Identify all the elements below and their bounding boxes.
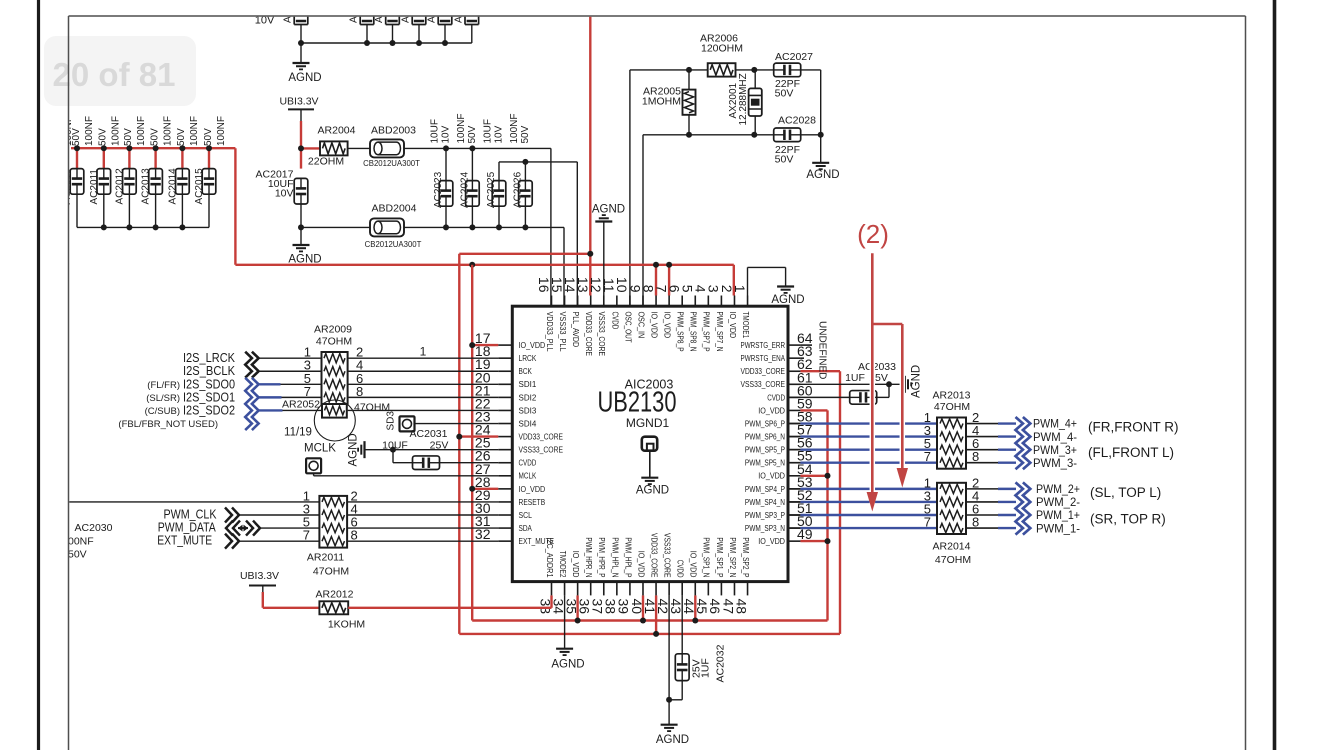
svg-text:AC2026: AC2026 <box>512 171 523 208</box>
wires blue IC to AR2014 <box>788 489 937 528</box>
wire pin42 VSS33 down <box>668 595 670 699</box>
svg-text:PWM_SP2_P: PWM_SP2_P <box>741 537 750 577</box>
svg-text:SCL: SCL <box>519 511 533 520</box>
svg-text:CVDD: CVDD <box>610 312 619 330</box>
resistor network AR2014 47OHM <box>924 475 979 566</box>
svg-text:UBI3.3V: UBI3.3V <box>240 570 279 582</box>
svg-text:TMODE2: TMODE2 <box>558 551 567 578</box>
svg-text:8: 8 <box>351 528 358 543</box>
svg-text:50V: 50V <box>123 128 134 146</box>
wire red IO_VDD left vertical <box>469 265 498 621</box>
IC right pins 49-64 <box>741 330 813 546</box>
capacitor AC2033 1UF 25V <box>788 361 896 404</box>
ferrite bead ABD2004 <box>301 203 422 250</box>
capacitor AC2023 10UF 10V <box>430 119 453 230</box>
svg-text:11/19: 11/19 <box>284 427 312 439</box>
svg-text:PWM_SP4_P: PWM_SP4_P <box>745 485 785 494</box>
capacitor AC2026 100NF 50V <box>509 113 532 230</box>
svg-text:VDD33_CORE: VDD33_CORE <box>519 432 564 441</box>
svg-text:1: 1 <box>420 344 427 358</box>
svg-text:VDD33_CORE: VDD33_CORE <box>584 312 593 357</box>
svg-text:PWM_SP7_N: PWM_SP7_N <box>715 312 724 352</box>
svg-text:PWM_HPR_P: PWM_HPR_P <box>597 537 606 577</box>
power symbol UBI3.3V <box>279 96 318 122</box>
svg-text:1UF: 1UF <box>700 658 712 678</box>
wire VSS33_PLL ground bus <box>404 227 564 306</box>
svg-text:PWRSTG_ERR: PWRSTG_ERR <box>741 341 786 350</box>
svg-text:IO_VDD: IO_VDD <box>519 341 546 350</box>
resistor network AR2009 47OHM <box>304 324 363 405</box>
svg-text:IO_VDD: IO_VDD <box>758 472 785 481</box>
wires AR2013 to connectors <box>966 424 1016 463</box>
labels PWM nets group2 <box>1036 482 1166 535</box>
wire red VDD33_CORE right vertical <box>800 371 840 634</box>
capacitor AC2027 22PF 50V <box>774 51 813 100</box>
svg-text:10V: 10V <box>441 125 452 143</box>
wire AR2004 to ABD2003 <box>348 147 370 149</box>
svg-text:100NF: 100NF <box>136 116 147 146</box>
capacitor top-row C1 (cropped) <box>349 0 374 43</box>
junction dots top bus <box>298 40 448 46</box>
right thick border bar <box>1273 0 1277 750</box>
svg-text:I2S_SDO1: I2S_SDO1 <box>183 390 235 404</box>
svg-text:PWM_2+: PWM_2+ <box>1036 482 1080 496</box>
svg-text:PWM_3+: PWM_3+ <box>1033 443 1077 457</box>
connector chevron EXT_MUTE <box>225 534 319 549</box>
svg-text:50V: 50V <box>775 154 794 166</box>
svg-text:120OHM: 120OHM <box>701 43 743 55</box>
resistor network AR2013 47OHM <box>924 389 979 468</box>
revision circle mark <box>314 400 355 441</box>
svg-text:PWRSTG_ENA: PWRSTG_ENA <box>741 354 786 363</box>
svg-text:EXT_MUTE: EXT_MUTE <box>157 533 212 547</box>
capacitor AC2025 10UF 10V <box>483 119 506 230</box>
wire OSC_IN net <box>643 135 774 306</box>
ground AGND pin34 <box>551 649 584 671</box>
svg-text:AC2027: AC2027 <box>775 51 813 63</box>
svg-text:I2C_ADDR1: I2C_ADDR1 <box>545 537 554 578</box>
ground AGND pin12 top <box>592 204 625 296</box>
svg-text:PWM_SP6_N: PWM_SP6_N <box>745 432 785 441</box>
svg-text:AGND: AGND <box>636 485 669 497</box>
svg-text:AGND: AGND <box>911 365 923 398</box>
connector chevron PWM_CLK <box>225 508 319 523</box>
svg-text:AGND: AGND <box>348 433 360 466</box>
svg-text:AC2014: AC2014 <box>167 168 178 205</box>
svg-text:PWM_SP6_P: PWM_SP6_P <box>745 419 785 428</box>
svg-text:I2S_BCLK: I2S_BCLK <box>183 364 236 378</box>
svg-text:MCLK: MCLK <box>304 443 336 455</box>
svg-text:PWM_SP5_P: PWM_SP5_P <box>745 446 785 455</box>
resistor AR2012 1KOHM <box>316 589 366 631</box>
capacitor AC2011 <box>89 116 122 227</box>
IC bottom pins 33-48 <box>537 533 750 614</box>
svg-text:PWM_4-: PWM_4- <box>1033 430 1077 444</box>
svg-text:AGND: AGND <box>656 734 689 746</box>
svg-text:AC2024: AC2024 <box>459 171 470 208</box>
svg-text:100NF: 100NF <box>189 116 200 146</box>
svg-text:AC2032: AC2032 <box>715 644 727 682</box>
svg-text:47OHM: 47OHM <box>934 401 970 413</box>
wire I2S_SDO2 <box>259 409 322 411</box>
svg-text:7: 7 <box>924 449 931 464</box>
svg-text:AC2028: AC2028 <box>778 115 816 127</box>
svg-text:47OHM: 47OHM <box>935 554 971 566</box>
svg-text:7: 7 <box>924 515 931 530</box>
svg-text:100NF: 100NF <box>162 116 173 146</box>
svg-text:AR2052: AR2052 <box>282 399 320 411</box>
svg-text:CVDD: CVDD <box>767 393 785 402</box>
pin 64 stub extension + UNDEFINED <box>800 321 827 379</box>
svg-text:AGND: AGND <box>551 659 584 671</box>
connector chevrons PWM group1 <box>1016 417 1023 469</box>
svg-text:1MOHM: 1MOHM <box>642 96 681 108</box>
svg-text:ABD2003: ABD2003 <box>371 125 416 137</box>
wire AC2030 row (pin29) <box>69 501 320 503</box>
svg-text:SDI3: SDI3 <box>519 406 537 415</box>
svg-text:IO_VDD: IO_VDD <box>519 485 546 494</box>
testpoint SD3 <box>386 411 499 432</box>
svg-text:PWM_1-: PWM_1- <box>1036 521 1080 535</box>
ground AGND crystal <box>806 163 839 181</box>
svg-text:UNDEFINED: UNDEFINED <box>817 321 828 379</box>
svg-text:50V: 50V <box>203 128 214 146</box>
wire I2S_SDO0 <box>259 383 322 385</box>
svg-text:7: 7 <box>304 384 311 399</box>
ground AGND rotated by AC2031 <box>348 433 394 466</box>
svg-text:1: 1 <box>732 285 748 293</box>
svg-text:I2S_SDO2: I2S_SDO2 <box>183 403 235 417</box>
labels AC2030 <box>68 522 113 561</box>
svg-text:(FBL/FBR_NOT USED): (FBL/FBR_NOT USED) <box>118 419 218 430</box>
svg-text:1KOHM: 1KOHM <box>328 619 365 631</box>
svg-text:VSS33_CORE: VSS33_CORE <box>741 380 786 389</box>
svg-text:PWM_DATA: PWM_DATA <box>158 520 217 534</box>
svg-text:OSC_IN: OSC_IN <box>636 312 645 339</box>
svg-text:AGND: AGND <box>592 204 625 216</box>
labels PWM_CLK PWM_DATA EXT_MUTE <box>157 507 217 547</box>
svg-text:PWM_4+: PWM_4+ <box>1033 417 1077 431</box>
connector chevrons PWM group2 <box>1016 482 1023 534</box>
svg-text:00NF: 00NF <box>68 536 94 548</box>
svg-text:AR2013: AR2013 <box>933 389 971 401</box>
svg-text:PWM_SP3_P: PWM_SP3_P <box>745 511 785 520</box>
svg-text:IO_VDD: IO_VDD <box>636 551 645 578</box>
annotation (2) with arrows <box>857 219 908 512</box>
labels PWM nets group1 <box>1033 417 1179 470</box>
capacitor AC2014 <box>167 116 200 227</box>
svg-text:SDA: SDA <box>519 524 533 533</box>
wire red IO_VDD bottom bus <box>472 595 827 623</box>
wire I2S_BCLK <box>259 370 322 372</box>
svg-text:CB2012UA300T: CB2012UA300T <box>363 159 420 168</box>
wire crystal right branch <box>801 70 821 163</box>
capacitor top-row C2 (cropped) <box>374 0 399 43</box>
wire VSS33_CORE right to ground <box>788 381 903 397</box>
wires AR2009 outputs to IC <box>348 358 499 410</box>
svg-text:AC2023: AC2023 <box>433 171 444 208</box>
resistor network AR2011 47OHM <box>303 488 358 577</box>
MGND1 pad symbol and ground <box>636 437 669 497</box>
capacitor AC2028 22PF 50V <box>774 115 816 166</box>
svg-text:PWM_SP2_N: PWM_SP2_N <box>728 537 737 577</box>
labels I2S signals <box>118 351 235 430</box>
svg-text:CVDD: CVDD <box>676 560 685 578</box>
svg-text:I2S_LRCK: I2S_LRCK <box>183 351 236 365</box>
svg-text:IO_VDD: IO_VDD <box>663 312 672 339</box>
wire red VDD33_CORE bottom bus <box>459 595 840 637</box>
svg-text:AC2011: AC2011 <box>89 169 100 205</box>
svg-text:AR2009: AR2009 <box>314 324 352 336</box>
svg-text:CVDD: CVDD <box>519 459 537 468</box>
svg-text:(FR,FRONT R): (FR,FRONT R) <box>1088 419 1179 434</box>
svg-text:10UF: 10UF <box>430 119 441 143</box>
svg-text:(SL, TOP L): (SL, TOP L) <box>1090 485 1161 500</box>
svg-text:PWM_SP1_P: PWM_SP1_P <box>715 537 724 577</box>
wire red vertical to IO_VDD bus <box>234 148 236 265</box>
svg-text:7: 7 <box>303 528 310 543</box>
svg-text:AC2025: AC2025 <box>486 171 497 208</box>
svg-text:8: 8 <box>356 384 363 399</box>
ground AGND rotated right <box>905 365 923 398</box>
svg-text:AGND: AGND <box>771 294 804 306</box>
capacitor AC2032 1UF 25V <box>666 595 726 702</box>
svg-text:PWM_1+: PWM_1+ <box>1036 508 1080 522</box>
IC top pins 1-16 <box>536 277 750 356</box>
svg-text:IO_VDD: IO_VDD <box>758 406 785 415</box>
svg-text:48: 48 <box>733 599 749 615</box>
svg-text:50V: 50V <box>68 549 87 561</box>
svg-text:PWM_HPL_P: PWM_HPL_P <box>623 537 632 577</box>
wire red IO_VDD top bus <box>235 262 733 296</box>
wire AR2006 to AC2027 <box>736 69 775 71</box>
svg-text:AGND: AGND <box>806 169 839 181</box>
capacitor AC2013 <box>141 116 174 227</box>
svg-text:VDD33_CORE: VDD33_CORE <box>741 367 786 376</box>
wire red IO_VDD right vertical <box>800 410 830 620</box>
junction dots cap bank <box>74 145 212 230</box>
svg-text:100NF: 100NF <box>216 116 227 146</box>
svg-text:IO_VDD: IO_VDD <box>728 312 737 339</box>
svg-text:IO_VDD: IO_VDD <box>689 551 698 578</box>
wire red UBI3.3V to AR2012 <box>263 592 320 608</box>
wire red UBI3.3V bus over cap bank <box>71 147 235 149</box>
wire I2S_LRCK <box>259 357 322 359</box>
capacitor AC2010 <box>62 116 95 227</box>
svg-text:CB2012UA300T: CB2012UA300T <box>365 240 422 249</box>
svg-text:PWM_HPL_N: PWM_HPL_N <box>610 537 619 577</box>
capacitor top-row C5 (cropped) <box>453 0 478 43</box>
capacitor top-row C4 (cropped) <box>427 0 452 43</box>
svg-text:50V: 50V <box>775 88 794 100</box>
wire red AR2012 to pin33 <box>348 595 551 607</box>
resistor AR2005 1MOHM <box>642 70 696 135</box>
svg-text:(SL/SR): (SL/SR) <box>146 393 180 404</box>
power symbol UBI3.3V lower <box>240 570 279 592</box>
svg-text:VDD33_CORE: VDD33_CORE <box>649 533 658 578</box>
svg-text:SDI2: SDI2 <box>519 393 537 402</box>
svg-text:PLL_AVDD: PLL_AVDD <box>571 312 580 348</box>
svg-text:PWM_SP7_P: PWM_SP7_P <box>702 312 711 352</box>
svg-text:50V: 50V <box>98 128 109 146</box>
ferrite bead ABD2003 <box>363 125 420 169</box>
svg-text:SD3: SD3 <box>386 411 397 431</box>
wire OSC_OUT net <box>630 70 708 306</box>
capacitor top-row C0 (cropped) <box>283 0 308 43</box>
ground AGND below AC2017 <box>288 224 321 265</box>
connector chevrons I2S blue <box>245 378 252 430</box>
svg-text:VSS33_CORE: VSS33_CORE <box>519 446 564 455</box>
svg-text:LRCK: LRCK <box>519 354 537 363</box>
svg-text:50V: 50V <box>176 128 187 146</box>
svg-text:10UF: 10UF <box>483 119 494 143</box>
svg-text:IO_VDD: IO_VDD <box>571 551 580 578</box>
svg-text:100NF: 100NF <box>84 116 95 146</box>
connector bidir PWM_DATA <box>226 521 319 536</box>
svg-text:UBI3.3V: UBI3.3V <box>279 96 318 108</box>
svg-text:12.288MHZ: 12.288MHZ <box>738 73 749 125</box>
svg-text:PWM_SP8_P: PWM_SP8_P <box>676 312 685 352</box>
wire pin34 TMODE2 to ground <box>564 595 566 648</box>
svg-text:100NF: 100NF <box>456 113 467 143</box>
left thick border bar <box>37 0 40 750</box>
resistor AR2052 47OHM <box>282 399 390 418</box>
svg-text:10V: 10V <box>494 125 505 143</box>
junction dot PLL_AVDD <box>522 159 528 165</box>
capacitor AC2024 100NF 50V <box>456 113 479 230</box>
svg-text:AC2015: AC2015 <box>194 168 205 205</box>
svg-text:(2): (2) <box>857 219 889 249</box>
svg-text:UB2130: UB2130 <box>598 387 677 419</box>
svg-text:PWM_SP5_N: PWM_SP5_N <box>745 459 785 468</box>
svg-text:22OHM: 22OHM <box>308 156 344 168</box>
svg-text:47OHM: 47OHM <box>316 335 352 347</box>
capacitor AC2017 10UF 10V <box>256 169 308 228</box>
svg-text:PWM_SP3_N: PWM_SP3_N <box>745 524 785 533</box>
testpoint MCLK <box>304 443 498 476</box>
svg-text:PWM_SP8_N: PWM_SP8_N <box>689 312 698 352</box>
wire PLL_AVDD line <box>499 162 577 306</box>
svg-text:PWM_HPR_N: PWM_HPR_N <box>584 537 593 577</box>
svg-text:IO_VDD: IO_VDD <box>649 312 658 339</box>
ground AGND below AC2032 <box>656 700 689 746</box>
wire pin1 TMODE1 to ground <box>748 267 786 295</box>
wire top AGND bus <box>301 42 472 44</box>
svg-text:(SR, TOP R): (SR, TOP R) <box>1090 512 1166 527</box>
svg-text:ABD2004: ABD2004 <box>372 203 417 215</box>
svg-text:PWM_SP1_N: PWM_SP1_N <box>702 537 711 577</box>
svg-text:AR2014: AR2014 <box>933 541 971 553</box>
svg-text:50V: 50V <box>149 128 160 146</box>
svg-text:OSC_OUT: OSC_OUT <box>623 312 632 343</box>
svg-text:PWM_2-: PWM_2- <box>1036 495 1080 509</box>
svg-text:SDI4: SDI4 <box>519 419 537 428</box>
svg-text:(FL,FRONT L): (FL,FRONT L) <box>1088 445 1174 460</box>
svg-text:IO_VDD: IO_VDD <box>758 537 785 546</box>
resistor AR2004 22OHM <box>308 125 356 168</box>
svg-text:AR2011: AR2011 <box>307 552 344 564</box>
wire red VDD33_CORE left vertical <box>456 254 498 634</box>
svg-text:50V: 50V <box>467 125 478 143</box>
svg-text:(C/SUB): (C/SUB) <box>145 406 180 417</box>
svg-text:VSS33_CORE: VSS33_CORE <box>597 312 606 357</box>
wire red VDD33_CORE vertical pin13 <box>459 16 593 296</box>
svg-text:AR2012: AR2012 <box>316 589 354 601</box>
svg-text:TMODE1: TMODE1 <box>741 312 750 339</box>
wire VDD33_PLL net <box>404 148 551 306</box>
svg-text:47OHM: 47OHM <box>313 566 349 578</box>
wire cap bank ground bus <box>77 226 209 228</box>
wire red UBI3.3V to node <box>298 121 320 169</box>
svg-text:AC2013: AC2013 <box>141 168 152 205</box>
wires blue IC to AR2013 <box>788 424 937 463</box>
svg-text:PWM_3-: PWM_3- <box>1033 456 1077 470</box>
svg-text:50V: 50V <box>520 125 531 143</box>
svg-text:SDI1: SDI1 <box>519 380 537 389</box>
op-amp/IC U2001 UB2130 AIC2003 body <box>512 306 788 581</box>
svg-text:VSS33_PLL: VSS33_PLL <box>558 312 567 353</box>
svg-text:RESETB: RESETB <box>519 498 546 507</box>
page watermark <box>44 36 196 106</box>
svg-text:1UF: 1UF <box>845 372 865 384</box>
svg-text:10V: 10V <box>275 188 294 200</box>
ground AGND top <box>288 43 321 84</box>
svg-text:PWM_CLK: PWM_CLK <box>164 507 218 521</box>
svg-text:20 of 81: 20 of 81 <box>53 56 176 93</box>
capacitor AC2012 <box>114 116 147 227</box>
junction dots crystal <box>686 67 824 138</box>
svg-text:(FL/FR): (FL/FR) <box>147 380 180 391</box>
svg-text:VDD33_PLL: VDD33_PLL <box>545 312 554 353</box>
crystal AX2001 12.288MHZ <box>728 70 762 135</box>
svg-text:AGND: AGND <box>288 72 321 84</box>
svg-text:BCK: BCK <box>519 367 533 376</box>
svg-text:VSS33_CORE: VSS33_CORE <box>663 533 672 578</box>
capacitor top-row C3 (cropped) <box>401 0 426 43</box>
svg-text:AC2030: AC2030 <box>75 522 113 534</box>
wires AR2011 outputs to IC <box>347 502 498 541</box>
svg-text:AC2031: AC2031 <box>410 428 448 440</box>
svg-text:50V: 50V <box>71 128 82 146</box>
wires AR2014 to connectors <box>966 489 1016 528</box>
capacitor AC2015 <box>194 116 227 227</box>
svg-text:AR2004: AR2004 <box>318 125 356 137</box>
svg-text:100NF: 100NF <box>509 113 520 143</box>
svg-text:PWM_SP4_N: PWM_SP4_N <box>745 498 785 507</box>
IC left pins 17-32 <box>475 330 563 546</box>
resistor AR2006 120OHM <box>700 33 743 77</box>
svg-text:100NF: 100NF <box>111 116 122 146</box>
connector chevrons I2S black <box>245 352 252 378</box>
capacitor AC2031 10UF 25V <box>382 428 498 470</box>
svg-text:AC2012: AC2012 <box>114 168 125 205</box>
svg-text:MGND1: MGND1 <box>626 416 670 430</box>
svg-text:I2S_SDO0: I2S_SDO0 <box>183 377 235 391</box>
ground AGND pin1 <box>771 287 804 307</box>
wire I2S_SDO1 <box>259 396 322 398</box>
svg-text:MCLK: MCLK <box>519 472 537 481</box>
